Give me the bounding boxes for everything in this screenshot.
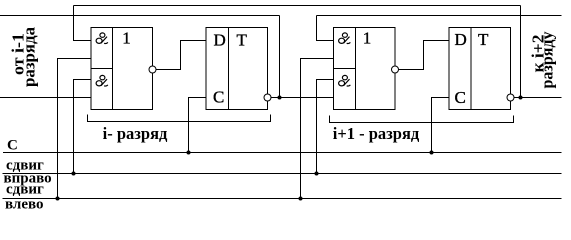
svg-text:сдвиг: сдвиг	[6, 182, 44, 198]
wire: gate1 output to FF1 D input	[156, 41, 206, 70]
gate DD1 and-or-invert box	[91, 28, 153, 110]
wire: gate2 AND input 2 from shift-left bus	[301, 59, 334, 199]
wire: gate1 AND input 3 from shift-right bus	[74, 80, 92, 174]
svg-text:C: C	[455, 88, 466, 107]
svg-text:i+1 - разряд: i+1 - разряд	[333, 124, 420, 143]
wire: upper right line (to i+2 stage)	[317, 15, 562, 17]
junction dot: FF2 clock on C bus	[430, 151, 434, 155]
svg-text:влево: влево	[5, 197, 43, 213]
svg-text:C: C	[7, 138, 18, 154]
wire: shift-right bus	[3, 173, 562, 175]
wire: gate1 AND input 2 from shift-left bus	[58, 59, 92, 199]
flip-flop DD4 box (D T)	[449, 28, 511, 110]
label: gate2 upper AND symbol	[339, 33, 351, 44]
svg-text:T: T	[237, 31, 248, 50]
wire: drop from upper right line to gate2 upper AND input 1	[317, 16, 334, 41]
wire: shift-left bus	[3, 198, 562, 200]
svg-text:D: D	[455, 30, 467, 49]
svg-text:D: D	[214, 31, 226, 50]
junction dot: FF1 clock on C bus	[187, 151, 191, 155]
label: gate1 upper AND symbol	[96, 33, 108, 44]
junction dot: FF2 output node	[519, 96, 523, 100]
wire: top feedback line from FF2 output to gate1 upper AND input	[74, 5, 521, 7]
inversion bubble: FF2 output	[507, 94, 514, 101]
junction dot: FF1 output node	[278, 96, 282, 100]
junction dot: gate1 on shift-right bus	[72, 172, 76, 176]
svg-text:1: 1	[363, 29, 372, 48]
label: gate1 lower AND symbol	[96, 75, 108, 86]
junction dot: gate1 on shift-left bus	[56, 197, 60, 201]
wire: FF2 output to right edge	[514, 97, 562, 99]
bracket: i+1-razryad group	[330, 116, 514, 123]
wire: right drop from top line to FF2 output node	[520, 6, 522, 98]
flip-flop DD2 box (D T)	[206, 28, 268, 110]
wire: gate2 AND input 3 from shift-right bus	[317, 80, 334, 174]
svg-text:1: 1	[122, 29, 131, 48]
wire: left drop into gate1 upper AND input 1	[74, 6, 92, 41]
wire: clock bus C	[3, 152, 562, 154]
svg-text:T: T	[478, 30, 489, 49]
gate DD3 and-or-invert box	[334, 28, 396, 110]
junction dot: gate2 on shift-right bus	[315, 172, 319, 176]
svg-text:i- разряд: i- разряд	[103, 124, 168, 143]
svg-text:разряду: разряду	[538, 31, 557, 88]
svg-text:разряда: разряда	[20, 27, 39, 87]
label: gate2 lower AND symbol	[339, 75, 351, 86]
wire: data input from stage i-1	[0, 97, 91, 99]
wire: upper left line (to i-1 stage)	[0, 15, 280, 17]
junction dot: gate2 on shift-left bus	[299, 197, 303, 201]
wire: FF1 output to gate2 AND input	[271, 97, 334, 99]
inversion bubble: gate1 output	[149, 66, 156, 73]
wire: FF2 C input from clock bus	[432, 98, 450, 153]
inversion bubble: gate2 output	[392, 66, 399, 73]
bracket: i-razryad group	[88, 115, 271, 122]
wire: FF1 C input from clock bus	[189, 98, 207, 153]
inversion bubble: FF1 output	[264, 94, 271, 101]
svg-text:C: C	[213, 88, 224, 107]
wire: gate2 output to FF2 D input	[399, 41, 450, 70]
wire: drop from upper left line to FF1 output node	[279, 16, 281, 98]
